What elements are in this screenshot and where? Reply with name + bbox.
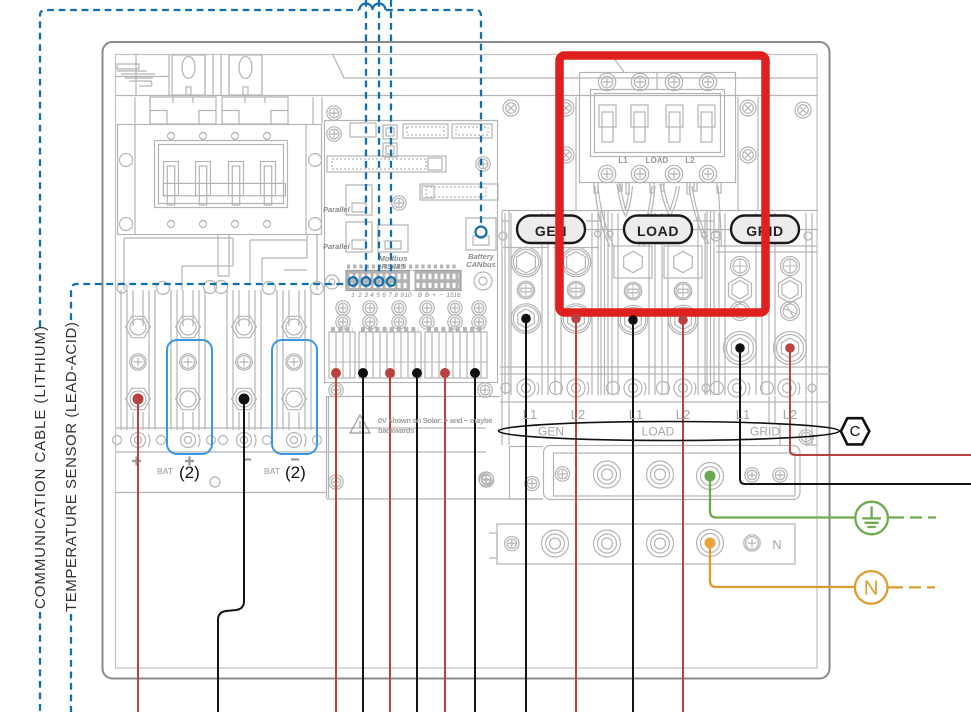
svg-text:(2): (2) — [179, 463, 200, 482]
svg-text:GRID: GRID — [750, 425, 780, 439]
svg-text:10: 10 — [404, 292, 412, 299]
svg-text:(2): (2) — [285, 463, 306, 482]
svg-text:LOAD: LOAD — [637, 223, 679, 239]
svg-text:backwards: backwards — [378, 426, 414, 435]
svg-text:3: 3 — [364, 292, 368, 299]
svg-text:−: − — [439, 292, 443, 299]
svg-text:GEN: GEN — [538, 425, 564, 439]
svg-text:TEMPERATURE SENSOR (LEAD-ACID): TEMPERATURE SENSOR (LEAD-ACID) — [63, 322, 80, 612]
svg-text:16: 16 — [453, 292, 461, 299]
svg-text:L2: L2 — [685, 156, 695, 165]
svg-text:2: 2 — [357, 292, 362, 299]
svg-text:L1: L1 — [629, 407, 643, 422]
svg-text:L2: L2 — [676, 407, 690, 422]
svg-text:LOAD: LOAD — [646, 156, 669, 165]
svg-text:L2: L2 — [783, 407, 797, 422]
svg-text:Parallel: Parallel — [323, 205, 351, 214]
svg-text:COMMUNICATION CABLE (LITHIUM): COMMUNICATION CABLE (LITHIUM) — [32, 325, 49, 609]
svg-text:6: 6 — [382, 292, 386, 299]
svg-text:7: 7 — [388, 292, 392, 299]
svg-text:8: 8 — [394, 292, 398, 299]
svg-text:RS485: RS485 — [382, 262, 406, 271]
svg-text:4: 4 — [370, 292, 374, 299]
svg-text:C: C — [850, 423, 861, 440]
svg-text:CANbus: CANbus — [466, 260, 496, 269]
svg-text:0V shown on Solar: + and − may: 0V shown on Solar: + and − maybe — [378, 416, 492, 425]
svg-text:L1: L1 — [618, 156, 628, 165]
svg-text:B: B — [425, 292, 430, 299]
svg-text:BAT: BAT — [157, 467, 173, 476]
svg-text:L1: L1 — [736, 407, 750, 422]
svg-text:5: 5 — [376, 292, 380, 299]
svg-text:BAT: BAT — [264, 467, 280, 476]
svg-text:L1: L1 — [523, 407, 537, 422]
svg-text:L2: L2 — [571, 407, 585, 422]
svg-text:LOAD: LOAD — [642, 425, 675, 439]
svg-text:+: + — [432, 292, 436, 299]
svg-text:N: N — [864, 577, 879, 600]
svg-text:Parallel: Parallel — [323, 242, 351, 251]
svg-text:N: N — [772, 537, 781, 552]
svg-text:B: B — [418, 292, 423, 299]
svg-text:1: 1 — [351, 292, 355, 299]
